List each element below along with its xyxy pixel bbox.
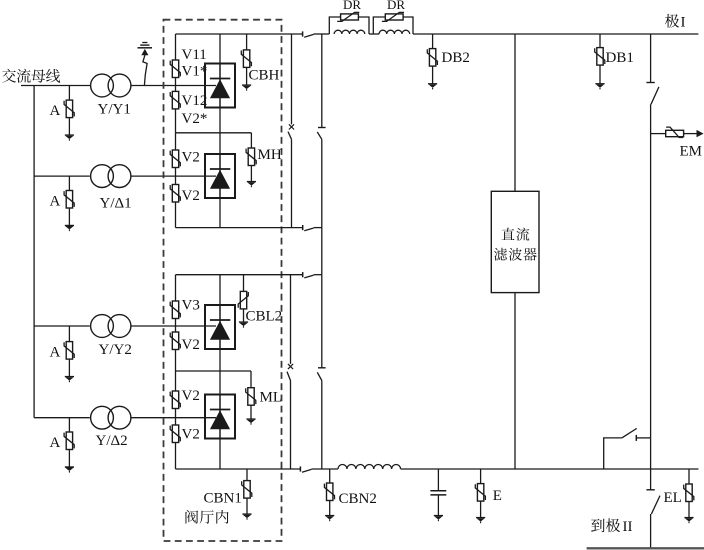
disconnector on converter top bus xyxy=(303,31,314,37)
wire: CBH tap xyxy=(246,34,248,50)
arrester CBL2 xyxy=(238,291,248,309)
wire: T1 secondary to valve V1 xyxy=(131,85,216,87)
wire: EM arrow lead xyxy=(684,133,697,135)
transfer switch blade xyxy=(622,428,637,438)
wire: T4 secondary to valve V4 xyxy=(131,417,216,419)
wire: group1 bottom to bypass column xyxy=(314,227,322,229)
wire: AC feeder vertical bus xyxy=(33,86,35,418)
wire: bypass left upper to group1 bottom xyxy=(291,139,293,227)
svg-text:DB2: DB2 xyxy=(442,50,470,66)
wire: V2a arrester column xyxy=(175,133,177,150)
wire: CBN1 tap xyxy=(246,469,248,481)
arrester A4 xyxy=(64,432,74,450)
wire: neutral bus left xyxy=(176,468,301,470)
svg-text:A: A xyxy=(50,193,61,209)
ground arrow EL xyxy=(684,518,693,524)
wire: neutral capacitor tap xyxy=(437,469,439,491)
wire: EL down lead xyxy=(688,502,690,518)
wire: to pole II drop xyxy=(650,514,652,548)
wire: T3 secondary to valve V3 xyxy=(131,325,216,327)
svg-text:A: A xyxy=(50,344,61,360)
wire: disconnector column lower xyxy=(321,381,323,470)
wire: AC bus horizontal xyxy=(21,85,91,87)
wire: group2 midpoint link xyxy=(176,370,252,372)
bypass switch BPS1 blade xyxy=(288,132,292,140)
wire: T2 secondary to valve V2 xyxy=(131,175,216,177)
wire: EL tap xyxy=(688,469,690,484)
wire: DC pole bus xyxy=(413,33,698,35)
svg-text:CBL2: CBL2 xyxy=(246,309,283,325)
ground arrow capacitor xyxy=(434,516,443,522)
wire: DB2 down lead xyxy=(432,66,434,84)
svg-text:CBN1: CBN1 xyxy=(204,491,242,507)
svg-text:Y/Δ1: Y/Δ1 xyxy=(100,196,132,212)
svg-text:A: A xyxy=(50,103,61,119)
ground arrester A2 xyxy=(65,225,74,231)
label 到极II xyxy=(591,518,620,532)
valve hall dashed enclosure xyxy=(164,20,282,541)
smoothing reactor DR1 coil xyxy=(334,30,365,34)
wire: valve3 to midpoint2 xyxy=(219,349,221,371)
arrester V12/V2* xyxy=(170,91,180,109)
svg-text:DR: DR xyxy=(387,0,405,12)
svg-text:V12: V12 xyxy=(182,93,208,109)
wire: V2c-V2d link xyxy=(175,409,177,426)
ground arrow CBN2 xyxy=(325,516,334,522)
wire: V2b to group1 bottom xyxy=(175,202,177,228)
wire: group2 top bus xyxy=(176,274,303,276)
disconnector Q2 blade xyxy=(317,372,322,380)
svg-text:ML: ML xyxy=(260,390,283,406)
wire: T2 primary feeder xyxy=(34,175,90,177)
smoothing reactor DR2 coil xyxy=(379,30,410,34)
svg-text:V11: V11 xyxy=(182,47,207,63)
wire: CBN1 down lead xyxy=(246,498,248,514)
wire: valve4 to neutral bus xyxy=(219,439,221,470)
wire: arrester A2 earth lead xyxy=(68,208,70,225)
disconnector on group1 bottom bus xyxy=(303,225,314,231)
arrester V2 (valve4 upper) xyxy=(170,391,180,409)
arrester DR2 xyxy=(382,12,404,21)
transfer switch contact bar xyxy=(635,435,637,441)
wire: CBN2 tap xyxy=(329,469,331,483)
svg-text:Y/Y1: Y/Y1 xyxy=(98,102,131,118)
wire: pole II bus xyxy=(587,547,704,549)
wire: DB1 down lead xyxy=(599,65,601,84)
wire: arrester A4 tap xyxy=(68,418,70,432)
DC filter box xyxy=(491,191,539,292)
lightning strike to earth symbol xyxy=(138,43,153,86)
wire: bypass left upper drop xyxy=(291,34,293,124)
arrester V2 (valve2 upper) xyxy=(170,150,180,168)
wire: arrester A4 earth lead xyxy=(68,450,70,467)
disconnector Q1 blade xyxy=(317,132,322,139)
neutral capacitor xyxy=(430,491,446,495)
arrester CBN1 xyxy=(242,481,252,499)
wire: DB2 tap xyxy=(432,34,434,49)
disconnector on neutral bus xyxy=(300,466,311,472)
svg-text:V3: V3 xyxy=(182,298,200,314)
ground arrow ML xyxy=(246,419,255,425)
arrester V2 (valve3 lower) xyxy=(170,332,180,350)
ground arrow DB2 xyxy=(428,84,437,90)
ground arrester A3 xyxy=(65,377,74,383)
wire: disconnector column middle xyxy=(321,139,323,367)
svg-text:V2: V2 xyxy=(182,150,200,166)
wire: transfer switch left leg xyxy=(604,438,622,469)
arrester E xyxy=(475,484,485,502)
wire: EM branch xyxy=(651,133,666,135)
svg-text:EL: EL xyxy=(664,490,682,506)
svg-text:E: E xyxy=(493,488,502,504)
wire: converter top bus xyxy=(176,33,303,35)
wire: DC filter lower lead xyxy=(514,293,516,469)
wire: valve2 to group1 bottom xyxy=(219,198,221,228)
ground arrester A1 xyxy=(65,135,74,141)
disconnector QP1 blade xyxy=(651,87,659,104)
wire: DC filter upper lead xyxy=(514,34,516,191)
svg-text:Y/Y2: Y/Y2 xyxy=(99,342,132,358)
thyristor valve V3 xyxy=(205,305,235,349)
wire: capacitor earth lead xyxy=(437,495,439,516)
arrester V3 xyxy=(170,301,180,319)
disconnector QP2 blade xyxy=(651,496,660,514)
svg-text:II: II xyxy=(623,519,633,535)
arrester CBN2 xyxy=(324,483,334,501)
wire: T3 primary feeder xyxy=(34,325,90,327)
wire: V3-V2 link xyxy=(175,319,177,333)
label 滤波器 xyxy=(494,248,537,261)
wire: V2a-V2b link xyxy=(175,168,177,185)
wire: E tap xyxy=(480,469,482,484)
wire: V11-V12 link xyxy=(175,78,177,92)
thyristor valve V2 xyxy=(205,154,235,198)
ground arrow CBL2 xyxy=(239,322,248,328)
disconnector QP1 contact bar xyxy=(646,82,654,84)
arrester V11/V1* xyxy=(170,60,180,78)
wire: V3 arrester column xyxy=(175,275,177,301)
arrester CBH xyxy=(241,50,251,68)
arrester DB1 xyxy=(595,48,605,66)
arrester EM xyxy=(666,127,684,137)
wire: V2d to neutral bus xyxy=(175,443,177,470)
wire: ML down lead xyxy=(250,405,252,419)
arrester V2 (valve4 lower) xyxy=(170,425,180,443)
wire: neutral bus to CBN2 xyxy=(311,468,338,470)
wire: group1 bottom bus xyxy=(176,227,303,229)
wire: DR1 bypass loop xyxy=(329,17,340,34)
wire: V12 to midpoint xyxy=(175,109,177,133)
wire: disconnector column upper drop xyxy=(321,34,323,128)
wire: V2c arrester column xyxy=(175,371,177,391)
wire: arrester A1 earth lead xyxy=(68,118,70,135)
arrester ML xyxy=(246,388,256,406)
label 直流 xyxy=(502,228,530,241)
svg-text:CBH: CBH xyxy=(249,68,280,84)
neutral smoothing reactor coil xyxy=(338,465,401,469)
svg-text:V2: V2 xyxy=(182,388,200,404)
wire: CBN2 down lead xyxy=(329,501,331,516)
svg-text:V2: V2 xyxy=(182,427,200,443)
transformer Y/Y1 xyxy=(91,74,131,97)
node: AC bus label 交流母线 xyxy=(2,69,60,83)
svg-text:MH: MH xyxy=(258,147,282,163)
arrester DB2 xyxy=(427,49,437,67)
thyristor valve V4 xyxy=(205,395,235,439)
svg-text:Y/Δ2: Y/Δ2 xyxy=(96,433,128,449)
svg-text:V2: V2 xyxy=(182,337,200,353)
ground arrow CBN1 xyxy=(242,514,251,520)
wire: transfer switch to pole line xyxy=(636,437,650,439)
arrester MH xyxy=(246,148,256,166)
ground arrow CBH xyxy=(242,85,251,91)
wire: pole line vertical xyxy=(650,104,652,490)
ground arrow DB1 xyxy=(595,84,604,90)
wire: V11 arrester column xyxy=(175,34,177,60)
wire: group1 midpoint link xyxy=(176,132,252,134)
bypass switch BPS2 cross mark xyxy=(288,364,293,369)
wire: E down lead xyxy=(480,501,482,517)
svg-text:DB1: DB1 xyxy=(606,50,634,66)
svg-text:A: A xyxy=(50,435,61,451)
wire: CBL2 tap xyxy=(243,275,245,292)
transformer Y/Y2 xyxy=(91,315,131,338)
wire: bypass left lower to neutral xyxy=(290,381,292,470)
wire: bypass left lower drop xyxy=(290,275,292,364)
wire: arrester A2 tap xyxy=(68,176,70,190)
bypass switch BPS1 cross mark xyxy=(289,124,294,129)
svg-text:V1*: V1* xyxy=(182,64,208,80)
disconnector Q2 contact bar xyxy=(318,367,326,369)
wire: CBL2 down lead xyxy=(243,309,245,322)
wire: group2 top to bypass column xyxy=(314,274,322,276)
ground arrow E xyxy=(476,518,485,524)
wire: group2 top to valve3 xyxy=(219,275,221,305)
arrester DR1 xyxy=(337,12,359,21)
wire: arrester A1 tap xyxy=(68,86,70,101)
ground arrester A4 xyxy=(65,467,74,473)
disconnector QP2 contact bar xyxy=(646,489,654,491)
svg-text:DR: DR xyxy=(343,0,361,12)
transformer Y/Δ2 xyxy=(91,406,131,429)
wire: V2 to group2 midpoint xyxy=(175,350,177,372)
bypass switch BPS2 blade xyxy=(287,372,291,381)
svg-text:I: I xyxy=(681,15,686,31)
ground arrow MH xyxy=(247,182,256,188)
wire: DR2 bypass loop xyxy=(373,17,385,34)
disconnector Q1 contact bar xyxy=(318,127,326,129)
wire: arrester A3 tap xyxy=(68,326,70,342)
wire: midpoint2 to valve4 xyxy=(219,371,221,395)
wire: T4 primary feeder xyxy=(34,417,90,419)
wire: CBH down lead xyxy=(246,67,248,85)
transformer Y/Δ1 xyxy=(91,165,131,188)
svg-text:V2: V2 xyxy=(182,188,200,204)
label 极I xyxy=(665,14,679,28)
wire: top bus to DR reactor xyxy=(314,33,330,35)
wire: arrester A3 earth lead xyxy=(68,359,70,376)
wire: DB1 tap xyxy=(599,34,601,48)
wire: MH tap xyxy=(250,133,252,148)
wire: DR1-DR2 link xyxy=(369,33,379,35)
thyristor valve V1 xyxy=(205,64,235,108)
arrester A3 xyxy=(64,342,74,360)
wire: neutral bus right xyxy=(401,468,699,470)
arrester A1 xyxy=(64,100,74,118)
svg-text:V2*: V2* xyxy=(182,111,208,127)
wire: ML tap xyxy=(250,371,252,388)
label 阀厅内 xyxy=(185,510,228,524)
arrester A2 xyxy=(64,191,74,209)
arrow to electrode line EM xyxy=(697,130,704,137)
arrester EL xyxy=(684,484,694,502)
wire: valve1 to midpoint xyxy=(219,108,221,155)
arrester V2 (valve2 lower) xyxy=(170,185,180,203)
wire: top bus to valve1 xyxy=(219,34,221,64)
svg-text:EM: EM xyxy=(680,144,703,160)
svg-text:CBN2: CBN2 xyxy=(339,491,377,507)
disconnector on group2 top bus xyxy=(303,272,314,278)
wire: pole line upper xyxy=(650,34,652,83)
wire: MH down lead xyxy=(250,166,252,182)
